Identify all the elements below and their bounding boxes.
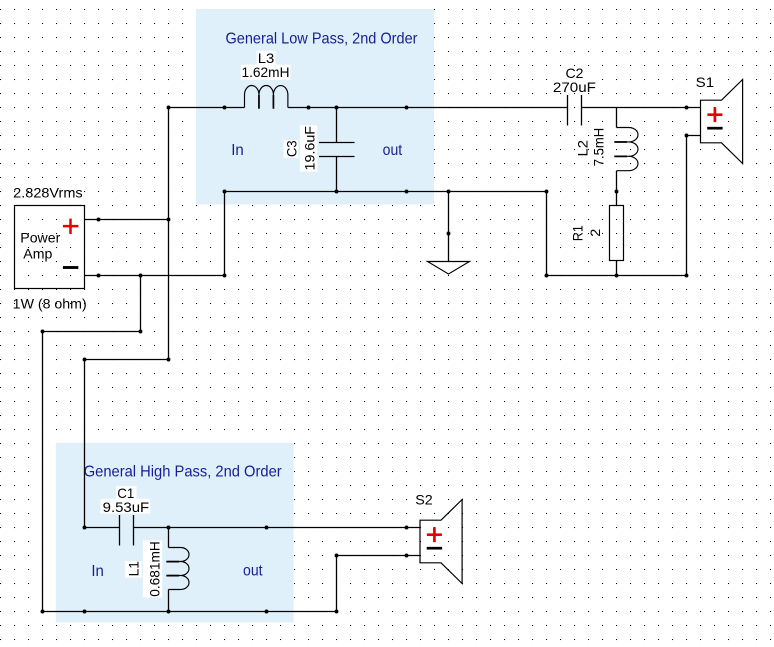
svg-text:C3: C3 — [283, 140, 299, 157]
svg-text:In: In — [231, 142, 244, 159]
svg-text:Amp: Amp — [23, 246, 52, 262]
svg-text:S1: S1 — [696, 74, 715, 90]
svg-text:2.828Vrms: 2.828Vrms — [13, 184, 83, 200]
svg-text:Power: Power — [20, 230, 60, 246]
svg-text:General Low Pass, 2nd Order: General Low Pass, 2nd Order — [226, 30, 419, 47]
svg-text:out: out — [243, 563, 263, 580]
svg-text:R1: R1 — [570, 225, 586, 241]
svg-text:0.681mH: 0.681mH — [147, 541, 163, 597]
svg-text:2: 2 — [587, 229, 603, 237]
svg-text:19.6uF: 19.6uF — [302, 126, 318, 171]
svg-text:1.62mH: 1.62mH — [242, 64, 290, 80]
svg-text:S2: S2 — [415, 492, 433, 508]
svg-text:L2: L2 — [574, 140, 590, 157]
svg-text:1W (8 ohm): 1W (8 ohm) — [13, 296, 87, 312]
svg-text:In: In — [91, 563, 104, 580]
svg-text:General High Pass, 2nd Order: General High Pass, 2nd Order — [84, 464, 283, 481]
svg-text:L1: L1 — [126, 561, 142, 577]
svg-text:9.53uF: 9.53uF — [103, 499, 150, 515]
svg-text:7.5mH: 7.5mH — [591, 128, 607, 167]
svg-text:out: out — [383, 142, 403, 159]
svg-text:270uF: 270uF — [553, 79, 596, 95]
